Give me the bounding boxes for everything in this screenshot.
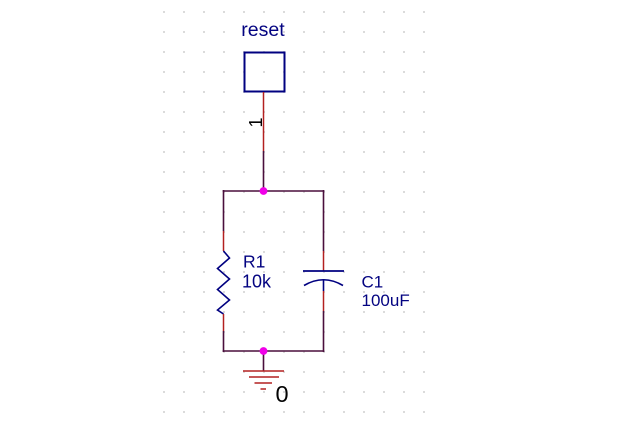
wire right lower segment: [323, 311, 325, 352]
capacitor C1 top plate: [303, 270, 344, 272]
capacitor C1 bottom curved plate: [304, 280, 343, 286]
junction bottom node: [260, 347, 268, 355]
svg-text:1: 1: [246, 117, 266, 127]
ground 0 stub wire: [263, 351, 265, 371]
resistor R1 pin 1: [223, 231, 225, 251]
ground 0 bar 2: [249, 376, 279, 378]
svg-text:0: 0: [276, 381, 289, 407]
ground 0 bar 1: [243, 370, 284, 372]
wire bottom horizontal: [223, 350, 325, 352]
svg-text:100uF: 100uF: [362, 291, 410, 310]
junction top node: [260, 187, 268, 195]
wire right upper segment: [323, 190, 325, 251]
pin of port reset: [263, 92, 265, 151]
ground 0 bar 3: [255, 382, 273, 384]
ground 0 bar 4: [261, 388, 267, 390]
wire left upper segment: [223, 190, 225, 231]
resistor R1 body: [218, 251, 230, 314]
svg-text:C1: C1: [362, 273, 384, 292]
port reset box: [245, 53, 285, 92]
svg-text:reset: reset: [241, 19, 285, 41]
resistor R1 pin 2: [223, 314, 225, 331]
svg-text:R1: R1: [243, 252, 265, 272]
capacitor C1 pin 2: [323, 291, 325, 311]
wire top horizontal: [223, 190, 325, 192]
capacitor C1 pin 1: [323, 251, 325, 271]
wire left lower segment: [223, 331, 225, 352]
svg-text:10k: 10k: [242, 272, 272, 292]
capacitor C1 stem: [323, 280, 325, 292]
wire net 1 vertical segment: [263, 151, 265, 191]
